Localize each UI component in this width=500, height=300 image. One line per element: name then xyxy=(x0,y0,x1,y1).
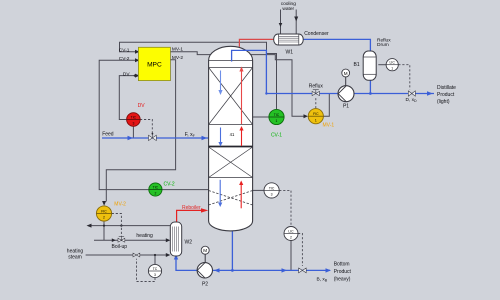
wire dashed LIC-2 to bottoms valve xyxy=(298,234,302,267)
column feed tray (thick) xyxy=(209,146,253,148)
valve reflux xyxy=(312,90,319,96)
svg-text:(light): (light) xyxy=(437,99,450,105)
svg-text:41: 41 xyxy=(230,132,235,137)
reboiler W2 xyxy=(170,222,181,256)
svg-text:DV: DV xyxy=(138,103,146,109)
wire CV-1 column tap xyxy=(253,116,270,118)
instrument LIC-2 (sump level) xyxy=(284,227,298,241)
column dome seam xyxy=(209,60,253,62)
column section line xyxy=(209,67,253,69)
condenser W1 xyxy=(274,34,304,45)
svg-text:Boil-up: Boil-up xyxy=(112,244,128,250)
svg-text:2: 2 xyxy=(154,191,156,195)
svg-text:CV-1: CV-1 xyxy=(119,47,130,53)
svg-text:cooling: cooling xyxy=(281,1,297,7)
svg-text:3: 3 xyxy=(154,273,156,277)
wire dashed FIC-1 to reflux valve xyxy=(315,98,317,109)
valve bottoms xyxy=(299,268,307,273)
wire cooling water inlet xyxy=(280,10,282,35)
wire TIC-3 column tap xyxy=(253,189,265,191)
wire CV-1 signal: column sensor to MPC xyxy=(120,42,277,110)
distillation column xyxy=(209,46,253,231)
svg-text:TIC: TIC xyxy=(131,115,137,119)
arrow cooling water in xyxy=(279,23,283,27)
svg-text:MV-2: MV-2 xyxy=(172,55,184,61)
svg-text:Drum: Drum xyxy=(377,42,389,48)
instrument TIC-3 (column side) xyxy=(264,183,279,198)
wire reflux riser (drawn over dome) xyxy=(232,50,267,93)
wire cooling water outlet xyxy=(295,10,297,35)
wire MV-1 signal: MPC to FIC-1 xyxy=(170,52,303,117)
wire CV-2 signal: sensor to MPC xyxy=(99,60,209,189)
instrument FIC-1 (MV-1, yellow) xyxy=(308,109,323,124)
svg-text:M: M xyxy=(203,248,207,253)
arrow reboiler vapor into column xyxy=(201,208,208,212)
wire dashed TIC-3 to LIC-2 xyxy=(279,190,291,226)
wire DV signal: red sensor to MPC xyxy=(119,76,135,120)
svg-text:Condenser: Condenser xyxy=(304,31,329,37)
column internal vapor arrow 3 (red up) xyxy=(240,184,242,208)
instrument LIC-1 (drum level) xyxy=(386,59,398,71)
svg-text:heating: heating xyxy=(136,233,153,239)
svg-text:steam: steam xyxy=(68,255,82,261)
arrow into MPC CV-1 xyxy=(135,50,140,54)
svg-text:TIC: TIC xyxy=(274,113,280,117)
svg-text:water: water xyxy=(282,6,294,12)
wire FIC-1 flow tap xyxy=(323,94,329,116)
svg-text:MV-1: MV-1 xyxy=(323,122,335,128)
svg-text:Reboiler: Reboiler xyxy=(182,205,201,211)
svg-text:Distillate: Distillate xyxy=(437,85,456,91)
node blue junctions xyxy=(231,92,372,272)
arrow bottoms product xyxy=(326,268,332,272)
wire reboiler vapor return (red) xyxy=(177,210,201,222)
svg-text:Reflux: Reflux xyxy=(309,84,324,90)
svg-text:Product: Product xyxy=(437,92,455,98)
column section line xyxy=(209,177,253,179)
svg-text:CV-2: CV-2 xyxy=(119,56,130,62)
svg-text:B1: B1 xyxy=(354,62,360,68)
wire LIC-2 level tap xyxy=(290,240,292,270)
arrowheads column internals xyxy=(218,90,222,95)
svg-text:1: 1 xyxy=(276,119,278,123)
pump P1 xyxy=(338,69,354,102)
svg-text:heating: heating xyxy=(67,248,84,254)
svg-text:Product: Product xyxy=(334,269,352,275)
wire P2 suction/discharge xyxy=(176,258,197,270)
arrow bottoms right xyxy=(282,268,288,272)
arrow into FIC-2 xyxy=(102,201,106,206)
arrow into FIC-1 xyxy=(304,114,309,118)
svg-text:W2: W2 xyxy=(185,240,193,246)
wire column overhead vapor (red) xyxy=(239,39,274,46)
column internal liquid arrow 2 (blue down) xyxy=(220,128,222,144)
instrument TIC-2 (CV-2, green) xyxy=(149,183,162,196)
instrument FIC-2 (MV-2, yellow) xyxy=(96,206,111,221)
arrow into P2 xyxy=(214,268,220,272)
arrow into MPC CV-2 xyxy=(135,58,140,62)
wire dashed DV to feed valve xyxy=(140,120,152,134)
svg-text:TC: TC xyxy=(153,267,158,271)
motor M2 xyxy=(201,246,209,254)
arrow distillate product xyxy=(427,91,433,95)
wire DV feed tap xyxy=(132,126,134,138)
wire TC-3 steam tap xyxy=(154,255,156,265)
wire dashed LIC-1 to distillate valve xyxy=(398,65,410,90)
svg-text:2: 2 xyxy=(103,216,105,220)
arrow feed 1 xyxy=(128,136,134,140)
arrow L1 left end xyxy=(87,224,92,228)
wire bottoms header xyxy=(213,269,330,271)
wire heating steam line xyxy=(86,254,167,256)
svg-text:(heavy): (heavy) xyxy=(334,276,351,282)
svg-text:LIC: LIC xyxy=(288,229,294,233)
svg-text:P1: P1 xyxy=(343,104,349,110)
svg-text:FIC: FIC xyxy=(101,209,107,213)
arrow cooling water in 2 xyxy=(294,17,298,22)
svg-text:1: 1 xyxy=(391,67,393,71)
reflux drum B1 xyxy=(363,51,376,80)
svg-text:W1: W1 xyxy=(286,50,294,56)
arrow steam into W2 xyxy=(166,253,171,257)
wire condensate to drum xyxy=(303,39,370,50)
wire MV-2 signal: MPC to FIC-2 xyxy=(106,60,175,202)
node junction dots xyxy=(103,75,156,257)
column internal vapor arrow 1 (red up) xyxy=(241,71,243,125)
wire dashed TC-3 to steam valve xyxy=(137,259,156,282)
pump P2 xyxy=(197,246,212,278)
valve distillate xyxy=(408,91,415,96)
column internal liquid arrow 3 (blue down) xyxy=(219,180,221,204)
svg-text:CV-2: CV-2 xyxy=(164,182,175,188)
arrow L2 into W2 xyxy=(166,238,171,242)
wire LIC-1 drum tap xyxy=(378,64,386,66)
instrument TC-3 (steam) xyxy=(148,264,161,277)
wire feed line xyxy=(102,137,209,139)
svg-text:Bottom: Bottom xyxy=(334,262,350,268)
arrow into MPC DV xyxy=(135,74,140,78)
svg-text:3: 3 xyxy=(271,193,273,197)
wire drum outlet xyxy=(369,80,371,94)
column section line xyxy=(209,124,253,126)
svg-text:TIC: TIC xyxy=(153,185,159,189)
svg-text:CV-1: CV-1 xyxy=(271,132,282,138)
instrument TIC-1 (CV-1, green) xyxy=(269,109,284,124)
svg-text:Feed: Feed xyxy=(102,131,114,137)
arrow L2 mid xyxy=(112,238,116,242)
svg-text:MV-1: MV-1 xyxy=(172,47,184,53)
svg-text:DV: DV xyxy=(123,71,130,77)
instrument TI-3 (DV, red) xyxy=(127,113,141,127)
svg-text:1: 1 xyxy=(315,118,317,122)
svg-text:LIC: LIC xyxy=(390,61,396,65)
wire boil-up line L2 xyxy=(94,239,167,241)
svg-text:TIC: TIC xyxy=(269,186,275,190)
valve heating steam xyxy=(133,253,140,257)
arrow feed into column xyxy=(202,136,208,140)
valve feed xyxy=(149,133,157,141)
svg-text:3: 3 xyxy=(132,122,134,126)
arrow up into W2 xyxy=(174,255,178,260)
wire reflux/distillate header xyxy=(266,93,434,95)
svg-text:P2: P2 xyxy=(202,281,208,287)
wire boil-up return line L1 xyxy=(88,225,170,227)
wire column bottoms downcomer xyxy=(231,230,233,271)
valve boil-up xyxy=(118,237,125,242)
svg-text:2: 2 xyxy=(290,236,292,240)
wire FIC-2 flow tap xyxy=(103,221,105,241)
svg-text:M: M xyxy=(344,71,348,76)
column internal liquid arrow 1 (blue down) xyxy=(220,71,222,92)
motor M1 xyxy=(342,69,350,77)
column packing X1 xyxy=(209,68,253,125)
column internal vapor arrow 2 (red up) xyxy=(241,130,243,147)
svg-text:MPC: MPC xyxy=(147,61,162,68)
svg-text:MV-2: MV-2 xyxy=(114,201,126,207)
wire dashed FIC-2 to boil-up valve xyxy=(112,214,122,237)
column packing X3 shallow (dashed) xyxy=(209,191,253,206)
MPC controller box xyxy=(138,47,170,80)
svg-text:FIC: FIC xyxy=(313,112,319,116)
column packing X2 xyxy=(209,147,253,178)
